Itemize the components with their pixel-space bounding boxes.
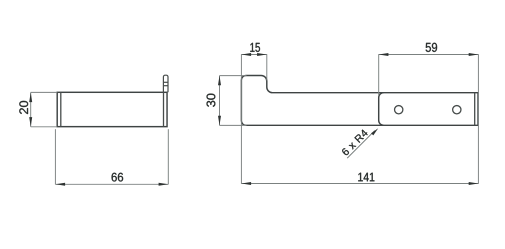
dimension 66: extension lines <box>55 129 168 184</box>
dimension 66: dimension line <box>55 183 168 185</box>
dimension 15: right extension line <box>266 54 268 80</box>
dimension 59: dimension line <box>379 54 479 56</box>
dimension 141: arrow left <box>241 182 251 185</box>
dimension 66: value label <box>112 173 124 182</box>
leader 6xR4: text label <box>342 130 367 156</box>
dimension 30: dimension line <box>219 76 221 126</box>
dimension 141: value label <box>358 173 374 182</box>
dimension 20: arrow up <box>29 92 32 102</box>
dimension 141: arrow right <box>469 182 479 185</box>
right view: right end inner line <box>474 93 476 126</box>
dimension 30: arrow up <box>218 76 221 86</box>
dimension 59/141 shared right extension line <box>477 54 479 184</box>
dimension 66: arrow left <box>55 183 65 186</box>
right view: screw hole left <box>395 106 403 114</box>
left view: wall plate tab (edge-on) <box>163 75 168 92</box>
right view: bracket profile outline <box>241 76 478 126</box>
dimension 30: extension lines <box>220 76 247 126</box>
dimension 30: value label <box>207 94 216 107</box>
leader 6xR4: arrowhead <box>371 128 378 135</box>
dimension 59: arrow right <box>469 53 479 56</box>
dimension 15/141 shared left extension line <box>240 54 242 184</box>
dimension 20: dimension line <box>30 92 32 126</box>
dimension 15: value label <box>250 43 260 52</box>
right view: screw hole right <box>453 106 461 114</box>
dimension 20: extension lines <box>31 92 58 126</box>
dimension 59: left extension line <box>378 54 380 95</box>
left view: left end cap inner line <box>60 92 62 126</box>
right view: wall plate left edge with corner radii <box>379 93 384 126</box>
dimension 15: dimension line <box>241 54 266 56</box>
dimension 20: arrow down <box>29 117 32 127</box>
dimension 66: arrow right <box>159 183 169 186</box>
dimension 59: value label <box>426 43 437 52</box>
dimension 15: arrow left <box>241 53 251 56</box>
dimension 15: arrow right <box>257 53 267 56</box>
dimension 59: arrow left <box>379 53 389 56</box>
dimension 20: value label <box>19 101 28 114</box>
left view: roll bar outline <box>57 92 167 126</box>
dimension 141: dimension line <box>241 183 478 185</box>
left view: right end cap inner line <box>163 92 165 126</box>
leader 6xR4: leader line <box>347 131 375 159</box>
dimension 30: arrow down <box>218 116 221 126</box>
